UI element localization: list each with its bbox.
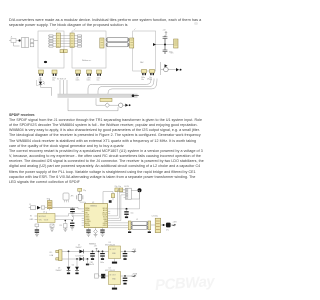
capacitor C14 below U2 <box>100 230 104 231</box>
connector J1 (input socket) <box>9 39 19 43</box>
resistor array in box B <box>78 35 82 47</box>
svg-text:10u: 10u <box>97 80 100 82</box>
wire J4 loop <box>131 190 139 199</box>
header connector CON1 on board A <box>56 33 60 47</box>
capacitor C13a <box>124 275 126 277</box>
svg-text:10u: 10u <box>52 80 55 82</box>
ground <box>35 233 39 237</box>
svg-text:SCLK: SCLK <box>103 217 107 219</box>
ribbon cable (twisted pair) <box>106 38 129 47</box>
wire choke to CE4 <box>151 224 171 226</box>
input series resistor <box>41 206 45 209</box>
wire TR1 to module A <box>14 41 39 46</box>
svg-text:RXIN1: RXIN1 <box>85 210 89 212</box>
svg-text:GND: GND <box>30 219 35 221</box>
svg-text:1000u/16: 1000u/16 <box>87 264 94 266</box>
capacitor C13 below U2 <box>86 230 90 231</box>
capacitor C12 (tantalum) <box>102 275 104 277</box>
transistor group below box C (left) <box>141 69 147 81</box>
node <box>163 224 165 226</box>
junction nodes on AC lines <box>68 251 70 253</box>
svg-text:SD SCK LR: SD SCK LR <box>57 78 67 80</box>
ground stub of lower AC line <box>87 259 89 263</box>
electrolytic CE1 <box>92 251 94 253</box>
section heading <box>9 113 35 117</box>
inter-board pin wires <box>48 36 82 46</box>
svg-text:D4: D4 <box>72 265 74 267</box>
decoupling capacitor group CB2 below box B <box>87 70 92 82</box>
svg-text:100n: 100n <box>87 80 91 82</box>
svg-text:22p 10n: 22p 10n <box>115 186 122 188</box>
svg-text:47u: 47u <box>166 230 169 232</box>
capacitor C2 below U1 <box>35 229 39 230</box>
capacitor C9 <box>102 251 104 253</box>
module box B (WM8804 receiver board) <box>72 31 106 68</box>
diode D-out <box>176 68 179 71</box>
svg-text:VIN VOUT: VIN VOUT <box>39 220 49 222</box>
svg-text:+6V: +6V <box>94 246 98 248</box>
node junction at J1 <box>19 39 21 41</box>
ferrite bead FB1 below U2 <box>94 230 98 234</box>
svg-text:WM8804: WM8804 <box>90 205 97 207</box>
U1 pins <box>35 212 59 220</box>
decoupling capacitor group CA1 below box A <box>39 70 44 82</box>
corner fiducial marks <box>56 29 136 31</box>
resistor R1 below U1 <box>35 224 39 227</box>
capacitor C3 on VDD <box>126 208 128 210</box>
indicator lamp circuit <box>161 62 181 75</box>
svg-text:GPO0: GPO0 <box>103 223 107 225</box>
node inside box A <box>44 61 47 63</box>
svg-text:R3: R3 <box>60 225 62 227</box>
wires U2 to choke <box>108 223 129 228</box>
wire DOUT to J4 <box>110 195 123 221</box>
svg-text:1N4007: 1N4007 <box>56 270 62 272</box>
svg-text:10u: 10u <box>131 212 134 214</box>
capacitor C8 (tantalum) <box>166 223 171 228</box>
svg-text:LRCLK: LRCLK <box>102 212 107 214</box>
svg-text:CSB: CSB <box>104 221 107 223</box>
grounds below choke pads <box>130 230 150 232</box>
ribbon cable CON4 on board C <box>130 38 134 48</box>
svg-text:SDIN: SDIN <box>103 219 106 221</box>
node at J4 <box>138 188 142 192</box>
I2S bus wires from board C <box>88 79 157 95</box>
svg-text:GPO1: GPO1 <box>103 225 107 227</box>
svg-text:C4 100u: C4 100u <box>152 216 158 218</box>
svg-text:100n: 100n <box>76 80 80 82</box>
decoupling capacitor group CB1 below box B <box>76 70 81 82</box>
electrolytic capacitor CE (yellow) <box>174 39 178 48</box>
capacitor C-bottom to ground <box>163 45 168 55</box>
svg-text:XIN: XIN <box>85 212 87 214</box>
svg-text:1N4007: 1N4007 <box>76 247 82 249</box>
arrow on input wire <box>37 206 41 210</box>
svg-text:D2 1N4007: D2 1N4007 <box>76 255 85 257</box>
crystal XT1 <box>79 191 81 194</box>
svg-text:6V~: 6V~ <box>50 252 53 254</box>
output wire from box C <box>156 44 174 46</box>
LED D1 indicator <box>37 77 52 96</box>
diode symbol above lamp <box>165 64 168 67</box>
FIGURE 1 : block diagram <box>0 26 212 118</box>
lamp circle <box>164 67 169 72</box>
jumper label pair between boards <box>60 50 63 53</box>
AC wires <box>62 251 109 259</box>
svg-text:MCLK: MCLK <box>103 208 107 210</box>
ribbon cable CON3 on board B <box>100 38 104 48</box>
output pin arrow <box>153 43 156 46</box>
diode D6 <box>125 104 128 107</box>
U2 right pin stubs <box>108 209 111 225</box>
svg-text:IN: IN <box>30 216 32 218</box>
svg-text:22p: 22p <box>83 190 86 192</box>
decoupling capacitor group CB3 below box B <box>97 70 102 82</box>
svg-text:Wolfson rec.: Wolfson rec. <box>82 59 92 62</box>
main paragraph <box>9 118 204 185</box>
capacitor C-top on +5V rail <box>163 36 168 45</box>
bus band <box>58 94 138 97</box>
svg-text:JP1: JP1 <box>71 196 74 198</box>
I2S bus wires from board A/B <box>60 80 67 94</box>
capacitor C7 <box>111 194 114 198</box>
svg-text:SWIFM: SWIFM <box>85 225 91 227</box>
svg-text:J4 I2S: J4 I2S <box>124 186 130 188</box>
svg-text:MCP1807: MCP1807 <box>39 216 47 218</box>
J4 pin stubs <box>124 190 126 198</box>
decoupling capacitor group CA2 below box A <box>52 70 57 82</box>
lamp L1 <box>119 103 123 107</box>
supply arrow +5V <box>165 32 167 36</box>
wire TR1 to U2 RX pin <box>45 207 82 209</box>
U2 bottom pin stubs <box>89 228 103 230</box>
resistor R2 <box>109 200 112 203</box>
svg-text:BCLK: BCLK <box>103 210 107 212</box>
transformer TR1 (input pulse transformer) <box>22 38 34 48</box>
capacitor C15 on U1 output <box>71 220 73 222</box>
capacitor C1 on RX line <box>70 207 75 216</box>
svg-text:DVDD: DVDD <box>85 217 89 219</box>
wire LRCLK to J4 <box>110 192 123 218</box>
svg-text:100n: 100n <box>100 262 104 264</box>
header JP1 <box>63 193 69 200</box>
module box A (SPDIF input board) <box>38 31 64 68</box>
svg-text:RXIN0: RXIN0 <box>85 208 89 210</box>
ferrite bead FB2 <box>105 103 110 108</box>
bus junction node <box>132 94 135 97</box>
diode D5 below U1 <box>50 224 54 227</box>
svg-text:+5V: +5V <box>163 30 167 32</box>
svg-text:J1: J1 <box>11 37 13 39</box>
svg-text:IN OUT: IN OUT <box>110 275 116 277</box>
svg-text:DGND: DGND <box>85 219 89 221</box>
module box C (output board U3) <box>133 31 156 71</box>
intro paragraph <box>9 18 201 28</box>
svg-text:L2: L2 <box>136 219 138 221</box>
wire MCLK to J4 <box>110 192 139 209</box>
+6V supply stub <box>95 248 97 251</box>
svg-text:+3V3: +3V3 <box>173 221 177 223</box>
feed wire to analog regulator <box>98 251 100 253</box>
wires U1 to U2 <box>59 214 82 220</box>
bus label bar <box>100 98 112 101</box>
U2 left pin stubs <box>82 209 85 225</box>
node on output wire <box>164 44 166 46</box>
svg-text:0.5A: 0.5A <box>50 254 54 257</box>
transistor group below box C (right) <box>149 69 155 81</box>
PCBWay watermark <box>154 273 214 294</box>
resistor array in box A <box>49 35 53 47</box>
capacitor C10 <box>124 251 126 253</box>
header connector CON2 on board B <box>70 33 74 47</box>
svg-text:10u: 10u <box>141 79 144 81</box>
svg-text:PLLVDD: PLLVDD <box>85 221 91 223</box>
page smudge mark <box>194 22 199 25</box>
film capacitor C11 <box>94 275 99 277</box>
svg-text:XOUT: XOUT <box>85 214 89 216</box>
FIGURE 2 : SPDIF receiver schematic <box>0 184 212 300</box>
wire opto row <box>96 104 125 106</box>
svg-text:DOUT: DOUT <box>103 214 107 216</box>
svg-text:IN OUT: IN OUT <box>110 249 116 251</box>
crystal load capacitor C6 <box>78 188 82 191</box>
wire BCLK to J4 <box>110 190 123 216</box>
wire from bus to opto circuit <box>68 98 118 111</box>
svg-text:+5V: +5V <box>149 79 153 81</box>
wire SDIN down <box>110 223 122 225</box>
svg-text:47u: 47u <box>171 53 174 55</box>
